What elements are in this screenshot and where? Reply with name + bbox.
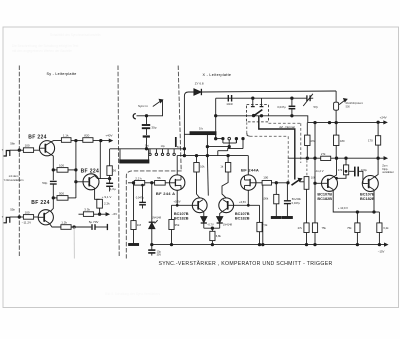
capacitor 50p [50, 181, 57, 184]
output divider column [378, 212, 380, 223]
svg-text:–11.2V: –11.2V [22, 221, 31, 225]
junction dot 1.1k/820 node [75, 139, 77, 141]
trimmer 57p plates [307, 95, 310, 101]
schmitt wire y=158.2 [288, 157, 321, 159]
mid labels [138, 82, 387, 149]
transistor Q1 BF224 circle [39, 141, 54, 156]
wire cap to end bar [95, 226, 107, 228]
dashed link pot body [306, 160, 308, 176]
fold line faint [73, 227, 75, 259]
svg-text:+ 10,9 V: + 10,9 V [338, 206, 348, 210]
svg-text:100: 100 [25, 144, 30, 148]
trim pot Rueckfuehr [334, 102, 339, 110]
QL internals [197, 201, 199, 210]
comparator supply wire [177, 155, 248, 157]
capacitor 10nF [228, 95, 231, 102]
svg-text:50.: 50. [177, 146, 181, 149]
ground bar [129, 244, 139, 246]
svg-text:1M: 1M [137, 223, 142, 227]
trimmer arrow diagonal [303, 94, 313, 106]
column diode 1N4148 [151, 183, 153, 222]
Q2 emitter to bottom wire [49, 223, 61, 227]
input wire from Sy board [110, 148, 185, 150]
resistor 47k vertical [345, 158, 347, 165]
comparator labels [135, 164, 316, 256]
wire input2 to R 100 [10, 216, 24, 218]
QL emitter to diode D1 [202, 211, 205, 216]
svg-text:2,2 k: 2,2 k [135, 176, 142, 180]
column 100k to ground [275, 183, 277, 195]
base wire QL [172, 204, 193, 206]
resistor 1.1k [61, 138, 71, 143]
resistor 1.2k [61, 225, 71, 230]
56 ohm column top corner [109, 149, 111, 166]
svg-text:5µ 70V: 5µ 70V [89, 220, 99, 224]
resistor 6.8k vertical [211, 228, 213, 231]
emitters joined [333, 190, 374, 213]
svg-text:Die Beschreibung der Schaltung: Die Beschreibung der Schaltung erfolgt i… [12, 44, 78, 48]
svg-text:BF 244A: BF 244A [241, 167, 259, 172]
ground bar 100k [271, 217, 281, 219]
capacitor 0.047u vertical [291, 98, 293, 106]
svg-text:0,047µ: 0,047µ [292, 201, 301, 205]
QR base wire to FET2 source [234, 204, 260, 206]
collector load QR [227, 156, 229, 163]
potentiometer 5k bar [190, 132, 216, 135]
svg-text:50p: 50p [42, 181, 47, 185]
svg-text:500: 500 [346, 106, 351, 109]
pot column 50+50k [286, 183, 288, 201]
svg-text:+11,2 V: +11,2 V [314, 169, 323, 173]
ghost bleedthrough text bottom [105, 292, 161, 296]
wire input1 to R 100 [10, 149, 24, 151]
pot wiper arrow 50+50k [292, 180, 300, 185]
resistor 820 [83, 138, 93, 143]
svg-text:1.1k: 1.1k [63, 134, 69, 138]
svg-text:+0,5V: +0,5V [173, 200, 180, 204]
svg-text:100µ: 100µ [361, 168, 367, 172]
wire to Q2 base [34, 216, 39, 218]
link column from comparator out [262, 185, 264, 245]
FET2 internals (mirrored) [249, 179, 251, 186]
transistor QS2 BC107B circle [362, 176, 378, 192]
QS2 collector column / 170 ohm [374, 158, 378, 177]
pot right end riser [215, 134, 217, 139]
capacitor 30p [142, 125, 150, 128]
resistor 1.2k vertical [377, 223, 382, 233]
gate chain wire [128, 182, 134, 184]
wire 2.2k to 56 [145, 182, 155, 184]
svg-text:Sat.: Sat. [145, 145, 150, 148]
wire 56 to FET1 gate [165, 182, 169, 184]
wire diode to right corner [201, 91, 336, 92]
svg-text:75k: 75k [322, 226, 327, 230]
Q3 collector wire to 56/cap junction [95, 176, 110, 179]
transistor QL BC107B circle [192, 198, 207, 213]
svg-text:BC182B: BC182B [174, 216, 189, 220]
transistor QS1 BC107B circle [322, 175, 338, 191]
svg-text:Bild 5. Schaltung des Sync-Ver: Bild 5. Schaltung des Sync-Verstärkers [105, 292, 161, 296]
-6V arrowhead [106, 213, 109, 216]
svg-text:57p: 57p [314, 105, 319, 109]
+40V arrowhead [109, 139, 112, 142]
pin circle [228, 137, 231, 140]
svg-text:6,2k: 6,2k [383, 226, 389, 230]
resistor 47k (pot feed) vertical [305, 135, 310, 145]
sync connector hook [133, 114, 136, 119]
svg-text:47k: 47k [338, 168, 343, 172]
resistor 2.2k vertical [97, 199, 103, 208]
transistor Q2 BF224 circle [38, 210, 53, 225]
resistor 56 horizontal [155, 181, 166, 186]
svg-text:+24V: +24V [380, 115, 387, 119]
FET2 drain up [247, 156, 249, 175]
wire 1.1k to 820 [71, 140, 83, 142]
capacitor 100u coupling [349, 170, 355, 172]
collector load QL [196, 156, 198, 163]
svg-text:35k: 35k [175, 223, 180, 227]
QR emitter to diode D2 [220, 211, 223, 216]
resistor 180 column [335, 123, 337, 136]
junction dot feedback column [75, 169, 77, 171]
svg-text:50+50k: 50+50k [292, 197, 302, 201]
svg-text:Kipp-: Kipp- [382, 167, 388, 171]
svg-text:ZY 6.8: ZY 6.8 [195, 82, 204, 86]
svg-text:0,047µ: 0,047µ [136, 196, 145, 200]
wire into Q2 collector [50, 206, 53, 212]
diode 1N4148 vertical [149, 221, 155, 223]
capacitor 4.7u [106, 183, 113, 186]
svg-text:10k: 10k [200, 164, 205, 168]
svg-text:75k: 75k [347, 226, 352, 230]
svg-text:6,8k: 6,8k [216, 234, 222, 238]
junction dot cap 0.047 top [291, 97, 293, 99]
svg-text:10nF: 10nF [226, 102, 233, 106]
wire hook to cap string [137, 115, 147, 117]
svg-text:170: 170 [368, 139, 373, 143]
svg-text:100: 100 [59, 163, 64, 167]
svg-text:Y-Vorverstärkern: Y-Vorverstärkern [4, 178, 24, 182]
resistor 1k vertical [225, 163, 230, 173]
resistor 100 horizontal [262, 181, 271, 186]
svg-text:1,0µ: 1,0µ [110, 187, 116, 191]
svg-text:100k: 100k [262, 197, 268, 201]
svg-text:–15V: –15V [378, 250, 385, 254]
svg-text:SYNC.-VERSTÄRKER , KOMPERATOR: SYNC.-VERSTÄRKER , KOMPERATOR UND SCHMIT… [159, 260, 333, 267]
input 2 pulse glyph [4, 217, 10, 223]
resistor 100 (upper bridge) [57, 168, 68, 173]
svg-text:–0,7V: –0,7V [207, 223, 214, 227]
resistor 170 vertical [376, 136, 381, 145]
QS1 collector column [333, 158, 336, 177]
wire B y=98 [216, 97, 307, 99]
pot wiper arrow [339, 100, 345, 105]
transistor QR BC107B circle (mirrored) [219, 198, 234, 213]
board border dashed (X board upper-left edge) [178, 66, 181, 171]
AZ-Normal switch dashed box [247, 105, 269, 122]
svg-text:35V: 35V [157, 254, 162, 257]
resistor 10k vertical [194, 163, 199, 173]
resistor 27k feedback [321, 156, 331, 160]
pin circles [149, 153, 151, 155]
svg-text:BC182B: BC182B [360, 197, 375, 201]
svg-text:56: 56 [113, 168, 117, 172]
capacitor 10u 35V [148, 250, 155, 253]
svg-text:verstärker: verstärker [382, 170, 394, 174]
svg-text:1.2k: 1.2k [61, 221, 67, 225]
Q1 emitter vertical chain wire [51, 154, 54, 180]
Q3 base wire from feedback column [76, 181, 83, 183]
svg-text:BF 224: BF 224 [31, 200, 50, 206]
input 1 pulse glyph [4, 151, 10, 157]
switch lever [253, 110, 262, 117]
svg-text:56n: 56n [10, 141, 15, 145]
svg-text:2.2k: 2.2k [104, 202, 110, 206]
svg-text:+40V: +40V [105, 134, 112, 138]
svg-text:Sync in: Sync in [138, 104, 148, 108]
bottom supply rail -15V [152, 244, 385, 246]
potentiometer body vertical [304, 177, 309, 190]
resistor 100 (input Q2) [23, 215, 33, 220]
Q3 internals [88, 177, 90, 186]
svg-text:Schaltbild des Synchronisation: Schaltbild des Synchronisationsteils [50, 33, 101, 37]
connector pins row [150, 149, 174, 153]
transistor Q3 BF224 circle [83, 174, 99, 190]
svg-text:BC107B: BC107B [317, 193, 332, 197]
svg-text:500: 500 [59, 191, 64, 195]
+24V mid rail [216, 116, 385, 123]
base column to 75k [314, 183, 316, 223]
junction dot emitter node [52, 169, 54, 171]
junction dot 820 right node [100, 139, 102, 141]
supply drop from +40V node [99, 141, 101, 179]
feedback vertical wire from 1.1k/820 node down to Q3 base [75, 141, 77, 198]
35k column [171, 205, 173, 219]
svg-text:56: 56 [157, 176, 161, 180]
Q1 internals [44, 144, 46, 153]
resistor 3.3k [83, 212, 93, 217]
supply column to Schmitt divider [306, 123, 308, 136]
FET2 source down [247, 190, 249, 205]
svg-text:Zum: Zum [382, 163, 387, 167]
QS2 internals [368, 179, 370, 188]
electrolytic lead [175, 137, 177, 147]
diode D1 vertical [201, 217, 207, 223]
resistor 75k emitter vertical [356, 212, 358, 223]
svg-text:1N4148: 1N4148 [223, 223, 233, 227]
FET1 BF244A circle [170, 175, 185, 190]
sync in arrow [153, 101, 161, 107]
svg-text:mit dem: mit dem [9, 174, 19, 178]
svg-text:27k: 27k [321, 152, 326, 156]
svg-text:180: 180 [340, 139, 345, 143]
diode join wire [204, 227, 220, 229]
board border dashed (Sy board right edge) [118, 66, 119, 258]
wire bridges lower [53, 197, 57, 199]
wire 820 to +40V arrow [93, 140, 110, 142]
svg-text:mit den angegebenen Werten der: mit den angegebenen Werten der Bauteile [12, 49, 72, 53]
svg-text:AZ - Normal: AZ - Normal [279, 125, 295, 129]
svg-text:0,047µ: 0,047µ [277, 105, 286, 109]
diode ZY6.8 supply wire [184, 92, 193, 156]
FET1 internals [174, 179, 176, 186]
dashed link upper [269, 122, 301, 124]
svg-text:100: 100 [25, 210, 30, 214]
output arrow Zum Kipp [378, 157, 384, 159]
switch contacts [252, 98, 254, 106]
wire 100 to pot node [272, 182, 289, 184]
svg-text:27k: 27k [298, 226, 303, 230]
shield bar [120, 160, 149, 163]
Q3 emitter down to 2.2k [95, 188, 100, 199]
end bar [106, 224, 108, 230]
svg-text:X - Leiterplatte: X - Leiterplatte [203, 73, 232, 77]
diode ZY6.8 [194, 89, 201, 95]
column 0.047u [142, 185, 144, 202]
svg-text:BC107B: BC107B [235, 212, 250, 216]
ground bar pot [282, 217, 292, 219]
resistor 500 (lower bridge) [57, 196, 68, 201]
schmitt base column [314, 123, 316, 184]
diode D2 vertical [217, 217, 223, 223]
svg-text:BC182B: BC182B [235, 216, 250, 220]
junction dot bottom wire [73, 226, 75, 228]
QS1 internals [327, 179, 329, 188]
resistor 100 (input Q1) [23, 148, 33, 153]
svg-text:3.3k: 3.3k [84, 208, 90, 212]
svg-text:BF 224: BF 224 [81, 168, 100, 174]
svg-text:BF 224: BF 224 [28, 134, 47, 140]
svg-text:100: 100 [263, 176, 268, 180]
wire B left drop [215, 98, 217, 133]
schmitt labels [298, 139, 394, 254]
svg-text:5 k: 5 k [199, 126, 204, 130]
sync line vertical [147, 100, 163, 116]
FET2 BF244A circle [241, 175, 256, 190]
svg-text:1N4148: 1N4148 [152, 216, 162, 220]
svg-text:BC107B: BC107B [174, 212, 189, 216]
QR internals [227, 201, 229, 210]
svg-text:47k: 47k [310, 139, 315, 143]
svg-text:820: 820 [84, 134, 89, 138]
junction dot lower node [52, 197, 54, 199]
svg-text:–6V: –6V [112, 212, 117, 216]
resistor 1M vertical [131, 221, 136, 230]
svg-text:10µ: 10µ [161, 145, 166, 148]
svg-text:BF 244 A: BF 244 A [156, 191, 175, 196]
corner down to pot [335, 91, 337, 102]
resistor 7.5k vertical [257, 222, 262, 231]
wire to Q1 base [34, 149, 40, 151]
resistor 56 [107, 166, 112, 176]
svg-text:Rückführpotent.: Rückführpotent. [346, 102, 364, 105]
selected path to pot wiper [259, 116, 295, 180]
contact pin wires [216, 138, 223, 140]
column 1M to ground [133, 183, 135, 221]
svg-text:55n: 55n [10, 208, 15, 212]
FET1 source down / base wire [176, 190, 178, 205]
svg-text:+ 9,1 V: + 9,1 V [102, 195, 112, 199]
capacitor (second) [143, 135, 150, 137]
svg-text:30p: 30p [151, 125, 156, 129]
board border dashed (X board lower-left edge) [126, 171, 181, 258]
resistor 35k vertical [169, 220, 174, 230]
resistor 2.2k horizontal [134, 181, 144, 186]
Q1 collector wire up to +40V rail [51, 141, 62, 143]
capacitor 0.047u lower [284, 201, 291, 204]
junction dot on input wire [145, 148, 147, 150]
wire bridges [53, 169, 57, 171]
resistor 100k vertical [274, 194, 279, 203]
7.5k column [259, 205, 261, 222]
svg-text:BC182B: BC182B [317, 197, 332, 201]
resistor 27k bottom vertical [304, 223, 309, 233]
capacitor 5u 70V [92, 224, 95, 230]
FET1 drain up to supply wire [176, 156, 178, 175]
ghost bleedthrough text top [12, 33, 101, 53]
shield can [119, 149, 121, 161]
pot wiper drop [206, 135, 208, 156]
left board labels [2, 134, 117, 225]
resistor 75k vertical [312, 223, 317, 233]
FET2 gate wire to 100 [256, 182, 262, 184]
board border dashed left (Sy board left edge) [18, 66, 20, 258]
svg-text:BC107B: BC107B [360, 193, 375, 197]
dashed link AZ to pot wiper [246, 122, 248, 133]
Q2 internals [43, 213, 45, 222]
wire 1.2k to cap [71, 226, 91, 228]
svg-text:Sy - Leiterplatte: Sy - Leiterplatte [47, 72, 77, 76]
svg-text:+6,5V: +6,5V [239, 200, 246, 204]
